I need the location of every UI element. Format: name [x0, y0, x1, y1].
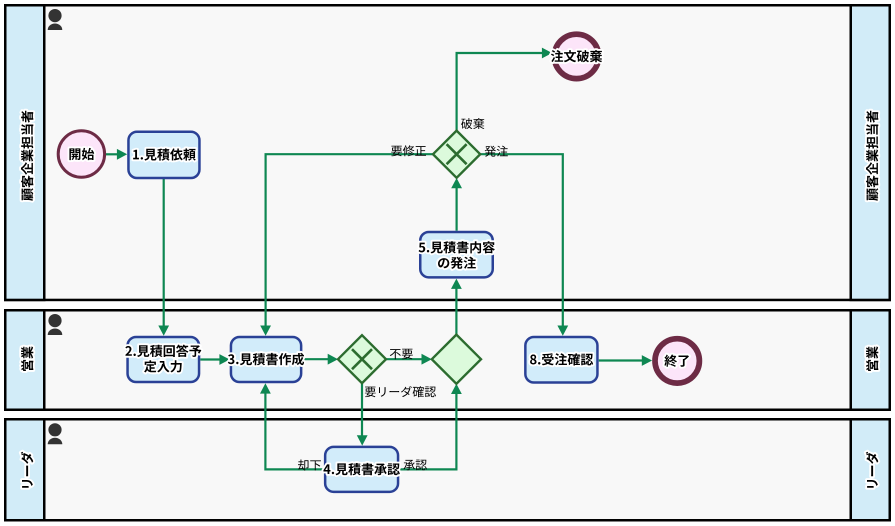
lane2 label left [21, 346, 33, 371]
lane 顧客企業担当者 [5, 5, 890, 300]
lane3 label left [21, 452, 34, 488]
task 4.見積書承認 [325, 447, 398, 492]
task 1.見積依頼 [128, 132, 199, 178]
task 2.見積回答予定入力 [128, 337, 200, 382]
lane3 label right [866, 452, 879, 488]
person icon lane1 [48, 9, 61, 22]
wire task2→task3 [200, 358, 220, 360]
wire 承認 task4→merge [399, 393, 456, 469]
label 要リーダ確認 [365, 386, 436, 397]
label 破棄 [461, 118, 484, 129]
wire task8→終了 [599, 359, 643, 361]
wire merge→task5 [455, 288, 457, 335]
wire task5→gatewayX1 [456, 188, 458, 231]
merge gateway (lane2) [432, 335, 481, 384]
wire 開始→task1 [106, 153, 118, 155]
wire 発注 gatewayX1→task8 [480, 154, 563, 327]
wire 不要 gatewayX2→merge [386, 358, 423, 360]
end event 終了 [655, 339, 699, 383]
task 8.受注確認 [525, 337, 597, 383]
lane 営業 [5, 310, 890, 410]
lane1 label left [21, 111, 33, 201]
wire 却下 task4→task3 [265, 393, 324, 469]
gateway X2 (exclusive, lane2) [338, 335, 386, 383]
wire task1→task2 [163, 179, 165, 327]
lane リーダ [5, 419, 890, 520]
label 不要 [390, 349, 413, 360]
wire 要修正 gatewayX1→task3 [266, 154, 434, 327]
gateway X1 (exclusive, lane1) [433, 131, 480, 178]
task 3.見積書作成 [231, 337, 301, 382]
end event 注文破棄 [554, 34, 598, 78]
person icon lane3 [48, 423, 61, 436]
lane1 label right [866, 111, 878, 201]
start event 開始 [58, 131, 104, 177]
label 要修正 [391, 145, 426, 156]
person icon lane2 [48, 314, 61, 327]
lane2 label right [866, 346, 878, 371]
task 5.見積書内容の発注 [420, 232, 493, 277]
label 発注 [485, 146, 508, 157]
label 却下 [298, 460, 321, 471]
wire 要リーダ確認 gatewayX2→task4 [361, 383, 363, 436]
wire task3→gatewayX2 [302, 358, 329, 360]
label 承認 [404, 460, 427, 471]
wire 破棄 gatewayX1→注文破棄 [457, 53, 543, 130]
